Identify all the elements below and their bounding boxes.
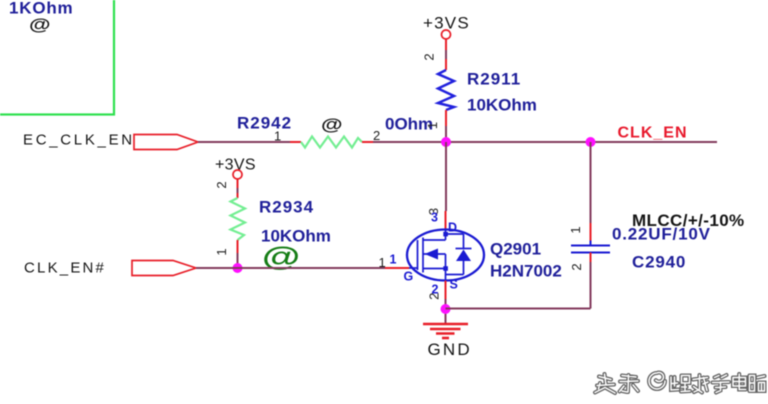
svg-text:10KOhm: 10KOhm: [467, 96, 537, 115]
wire R2911 to node: [445, 110, 447, 126]
node junction (source/GND/cap return): [441, 304, 451, 314]
svg-text:S: S: [450, 278, 458, 292]
svg-text:CLK_EN#: CLK_EN#: [24, 259, 106, 276]
resistor R2942: [301, 137, 362, 148]
glyph @: [649, 373, 665, 389]
svg-text:GND: GND: [428, 340, 472, 359]
glyph 电: [733, 374, 746, 390]
transistor body arrow: [425, 249, 439, 260]
svg-text:R2934: R2934: [259, 197, 314, 216]
glyph 脑: [750, 376, 765, 392]
glyph 跟: [671, 376, 690, 392]
wire capacitor bottom: [590, 253, 592, 264]
svg-text:1: 1: [274, 129, 281, 144]
off-page connector CLK_EN#: [132, 261, 196, 276]
glyph 跟: [671, 376, 690, 392]
transistor internal junction dots: [443, 232, 448, 237]
transistor body diode triangle: [456, 250, 471, 262]
svg-text:1: 1: [425, 122, 440, 129]
svg-text:1: 1: [390, 253, 397, 267]
green box (partial component outline, top-left): [0, 0, 114, 115]
glyph 我: [693, 375, 708, 393]
svg-text:H2N7002: H2N7002: [490, 261, 562, 280]
node junction (R2911/drain): [441, 137, 451, 147]
svg-text:2: 2: [214, 181, 229, 188]
svg-text:0.22UF/10V: 0.22UF/10V: [612, 225, 711, 244]
resistor R2934: [231, 198, 246, 240]
svg-text:@: @: [321, 115, 343, 134]
svg-text:2: 2: [373, 128, 380, 143]
wire node to drain: [445, 142, 447, 211]
svg-text:C2940: C2940: [632, 253, 686, 272]
svg-text:R2942: R2942: [237, 113, 292, 132]
transistor Q2901: [407, 230, 484, 281]
glyph @: [649, 373, 665, 389]
wire EC_CLK_EN to R2942 pin1: [198, 141, 290, 143]
wire R2934 to node: [237, 240, 239, 253]
glyph 学: [713, 375, 730, 393]
node junction (CLK_EN# row): [233, 263, 243, 273]
wire gate lead: [385, 267, 409, 269]
svg-text:EC_CLK_EN: EC_CLK_EN: [23, 132, 135, 149]
resistor R2911: [438, 70, 454, 110]
svg-text:2: 2: [422, 53, 437, 60]
svg-text:1: 1: [568, 226, 583, 233]
glyph 条: [620, 375, 639, 392]
glyph 我: [693, 375, 708, 393]
svg-text:@: @: [29, 15, 51, 34]
glyph 脑: [750, 376, 765, 392]
glyph 电: [733, 374, 746, 390]
svg-text:R2911: R2911: [467, 69, 521, 88]
svg-text:1: 1: [214, 248, 229, 255]
svg-text:2: 2: [569, 263, 584, 270]
wire node to capacitor: [590, 142, 592, 223]
ground GND symbol: [423, 324, 468, 338]
svg-text:1: 1: [379, 255, 386, 270]
wire CLK_EN# row: [196, 267, 385, 269]
glyph 头: [595, 374, 615, 393]
wire R2942 pin2 lead: [362, 141, 373, 143]
svg-text:G: G: [404, 270, 414, 284]
wire +3VS to R2934: [237, 179, 239, 188]
off-page connector EC_CLK_EN: [134, 135, 198, 150]
svg-text:3: 3: [431, 210, 438, 224]
capacitor C2940: [571, 241, 610, 258]
svg-text:2: 2: [427, 293, 442, 300]
wire R2942 to node: [373, 141, 717, 143]
glyph 条: [620, 375, 639, 392]
svg-text:Q2901: Q2901: [490, 239, 541, 258]
wire R2942 pin1 lead: [290, 141, 301, 143]
wire source to GND node: [445, 281, 447, 300]
node junction (cap top): [586, 137, 596, 147]
watermark (approximated CJK glyphs): [595, 373, 765, 393]
wire +3VS to R2911: [445, 39, 447, 50]
glyph 头: [595, 374, 615, 393]
wire cap return horizontal: [446, 308, 591, 310]
glyph 学: [713, 375, 730, 393]
svg-text:D: D: [448, 221, 457, 235]
svg-text:CLK_EN: CLK_EN: [618, 124, 688, 141]
